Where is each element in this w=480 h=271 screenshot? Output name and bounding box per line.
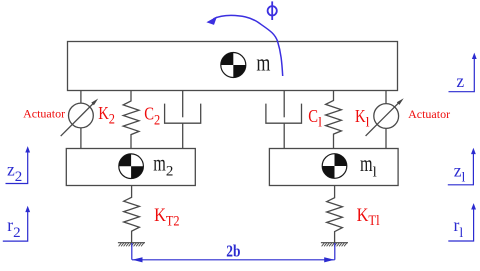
svg-text:Actuator: Actuator (23, 106, 65, 120)
svg-text:z: z (456, 71, 464, 91)
svg-text:Actuator: Actuator (408, 107, 450, 121)
svg-text:m: m (256, 51, 270, 77)
svg-text:2b: 2b (226, 242, 240, 261)
